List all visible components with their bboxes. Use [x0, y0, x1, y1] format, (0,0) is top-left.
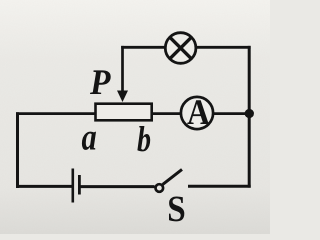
switch S: pivot circle	[156, 184, 164, 192]
rheostat (slide resistor) body	[96, 104, 152, 121]
wire: left vertical branch	[16, 112, 19, 188]
junction node dot	[245, 109, 254, 118]
battery: long plate (left)	[72, 169, 75, 203]
ammeter circle	[181, 97, 213, 129]
battery: short plate (right)	[78, 175, 81, 195]
wire: bottom middle horizontal, battery to switch	[81, 185, 155, 188]
wire: middle-left horizontal to rheostat terminal a	[16, 112, 96, 115]
label S	[169, 197, 184, 222]
ammeter label A	[187, 100, 209, 124]
wire: ammeter to junction node	[213, 112, 249, 115]
wiper arrowhead	[117, 91, 128, 103]
lamp (bulb) circle	[165, 33, 196, 64]
label a	[82, 132, 96, 150]
wire: bottom-left horizontal to battery	[16, 185, 72, 188]
wire: bottom right horizontal, switch to right edge	[188, 185, 251, 188]
wire: top horizontal, lamp to right edge	[197, 46, 251, 49]
wire: rheostat terminal b to ammeter	[153, 112, 181, 115]
label P	[90, 70, 111, 94]
wire: right vertical	[248, 46, 251, 188]
lamp X diagonal 1	[170, 37, 191, 58]
lamp X diagonal 2	[170, 37, 191, 58]
switch S: open lever arm	[163, 169, 182, 184]
wire: lamp left to wiper corner	[121, 46, 166, 49]
wiper vertical wire	[121, 46, 124, 93]
label b	[137, 126, 150, 151]
